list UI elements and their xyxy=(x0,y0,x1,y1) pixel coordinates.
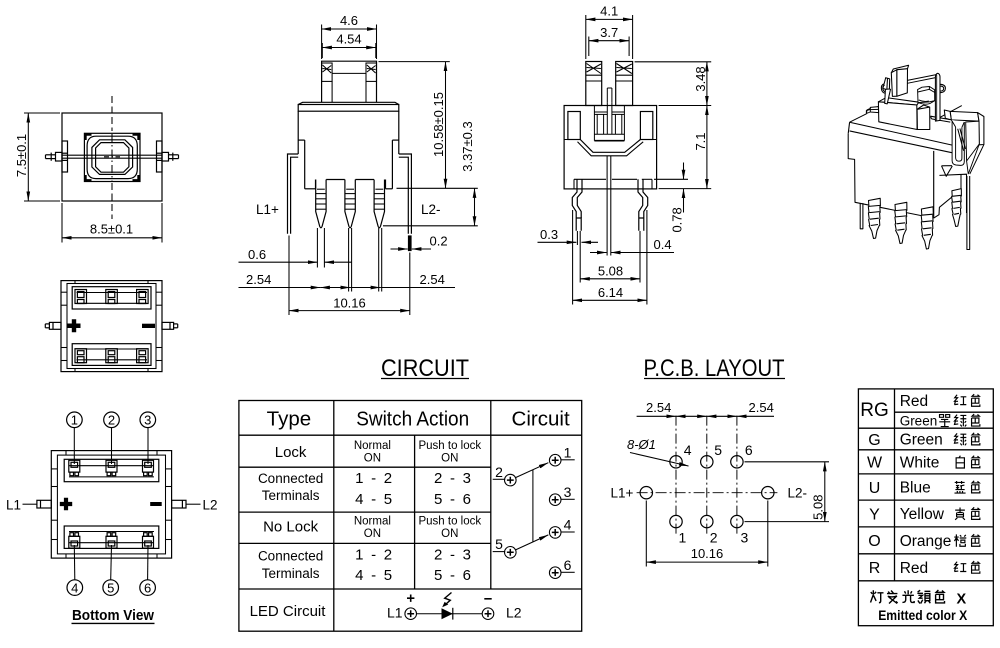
terminal pin 1 xyxy=(316,180,326,228)
hole 3 xyxy=(731,515,743,527)
3d post curl xyxy=(940,84,945,92)
terminal 2 pad xyxy=(106,460,117,475)
housing inner wall xyxy=(51,451,171,558)
3d body right face xyxy=(934,174,967,218)
dimension 6.14 xyxy=(573,299,647,301)
3d bracket front face xyxy=(966,121,984,174)
dimension 7.1 xyxy=(659,106,712,189)
svg-text:6: 6 xyxy=(745,442,753,458)
LED circuit: L1 terminal xyxy=(405,608,417,620)
L2 label xyxy=(186,503,201,505)
dimension 5.08 xyxy=(580,278,640,280)
svg-text:5: 5 xyxy=(107,580,114,595)
svg-text:1: 1 xyxy=(679,530,687,546)
pin 3 centre extension xyxy=(379,228,382,292)
CIRCUIT title xyxy=(381,355,469,382)
svg-text:2 - 3: 2 - 3 xyxy=(434,546,471,563)
svg-text:8.5±0.1: 8.5±0.1 xyxy=(90,222,133,237)
row: No Lock xyxy=(263,515,481,539)
svg-text:3: 3 xyxy=(564,484,572,500)
dimension 8.5±0.1 xyxy=(62,203,162,243)
hole L1 xyxy=(640,487,652,499)
svg-text:Terminals: Terminals xyxy=(262,566,320,581)
button ring outer xyxy=(87,136,137,178)
centerline vertical (dashed) xyxy=(104,96,120,219)
svg-text:4: 4 xyxy=(684,442,692,458)
3d bracket right face xyxy=(978,113,984,145)
svg-text:Red: Red xyxy=(900,560,928,577)
minus polarity mark xyxy=(142,324,155,328)
svg-text:0.4: 0.4 xyxy=(654,237,672,252)
table grid xyxy=(239,401,582,632)
housing outline xyxy=(51,451,171,558)
dimension 0.78 xyxy=(654,163,688,213)
svg-text:6.14: 6.14 xyxy=(598,285,623,300)
hole 4 xyxy=(670,456,682,468)
terminal 6 pad xyxy=(143,533,154,548)
3d left leg wire xyxy=(860,203,863,229)
svg-text:RG: RG xyxy=(860,400,889,421)
internal shelf lines xyxy=(564,139,657,141)
dimension 5.08 xyxy=(745,462,830,522)
svg-text:5.08: 5.08 xyxy=(598,264,623,279)
svg-text:1: 1 xyxy=(71,413,78,428)
dimension 0.2 xyxy=(391,248,432,250)
body flange xyxy=(298,105,399,112)
3d front pin C xyxy=(921,207,933,249)
schematic: terminal 6 xyxy=(549,567,574,579)
row: LED Circuit xyxy=(250,603,327,620)
svg-text:Connected: Connected xyxy=(258,548,323,563)
hole 1 xyxy=(670,515,682,527)
contact cup outer xyxy=(580,140,640,153)
leader terminal 5 to balloon 5 xyxy=(110,545,113,580)
terminal 3 pad xyxy=(143,460,154,475)
svg-text:Bottom View: Bottom View xyxy=(72,607,154,624)
L2- label xyxy=(421,202,441,217)
svg-text:Yellow: Yellow xyxy=(900,506,945,523)
svg-text:G: G xyxy=(868,432,880,449)
left retainer tab xyxy=(62,141,68,172)
housing outline xyxy=(61,281,162,372)
hole 2 xyxy=(701,515,713,527)
left corner block xyxy=(568,112,580,140)
svg-text:2.54: 2.54 xyxy=(246,272,271,287)
LED circuit: L1 label xyxy=(387,605,403,621)
svg-text:2: 2 xyxy=(495,464,503,480)
3d rear right leg wire xyxy=(967,176,970,250)
svg-text:L2-: L2- xyxy=(421,202,441,217)
LED circuit: diode D1 xyxy=(442,608,453,620)
svg-text:Circuit: Circuit xyxy=(512,407,570,430)
schematic: link bar xyxy=(532,470,534,542)
svg-text:4 - 5: 4 - 5 xyxy=(355,491,392,508)
3d platform top band xyxy=(878,98,919,105)
3d platform left foot xyxy=(867,107,879,114)
svg-text:5 - 6: 5 - 6 xyxy=(434,491,471,508)
svg-text:Normal: Normal xyxy=(354,515,391,527)
right lead pin xyxy=(162,322,178,329)
LED circuit: light arrow xyxy=(442,593,451,608)
svg-text:1 - 2: 1 - 2 xyxy=(355,546,392,563)
stem right clip xyxy=(366,63,377,81)
svg-text:L1: L1 xyxy=(6,497,21,512)
hole L2 xyxy=(762,487,774,499)
svg-text:X: X xyxy=(957,592,967,608)
L1 lead wire (left leg) xyxy=(288,154,299,234)
minus polarity mark xyxy=(150,502,162,506)
svg-text:4.54: 4.54 xyxy=(336,32,361,47)
svg-text:0.6: 0.6 xyxy=(248,247,266,262)
svg-text:3: 3 xyxy=(144,413,151,428)
svg-text:Type: Type xyxy=(267,407,311,430)
svg-text:L1: L1 xyxy=(387,605,403,621)
top terminal slot xyxy=(64,459,159,481)
terminal 4 pad xyxy=(69,533,80,548)
svg-text:L2-: L2- xyxy=(788,486,808,501)
dimension 4.1 xyxy=(586,15,633,59)
svg-text:4.6: 4.6 xyxy=(340,13,358,28)
svg-text:Green: Green xyxy=(900,432,943,449)
stem left post xyxy=(586,62,602,106)
terminal clip B3 xyxy=(137,349,149,363)
leader terminal 2 to balloon 2 xyxy=(111,428,113,464)
balloon 2 xyxy=(104,412,120,428)
svg-text:R: R xyxy=(869,560,881,577)
pin 1 tip extension lines xyxy=(317,228,324,268)
schematic: terminal 3 xyxy=(549,494,574,506)
svg-text:6: 6 xyxy=(144,580,151,595)
3d plate front face xyxy=(848,122,956,153)
leg tip extensions xyxy=(573,210,647,305)
L1+ label xyxy=(611,486,634,501)
leader terminal 1 to balloon 1 xyxy=(73,428,75,464)
svg-text:3.48: 3.48 xyxy=(693,66,708,91)
colour code letters xyxy=(860,400,889,577)
terminal 1 pad xyxy=(69,460,80,475)
switch leg right xyxy=(638,179,648,231)
svg-text:2.54: 2.54 xyxy=(420,272,445,287)
L2 lead tip (0.2 feature) xyxy=(408,235,412,251)
plus polarity mark xyxy=(68,319,81,332)
svg-text:Connected: Connected xyxy=(258,471,323,486)
svg-text:ON: ON xyxy=(364,528,381,540)
bottom terminal slot xyxy=(64,526,159,548)
svg-text:5.08: 5.08 xyxy=(811,495,826,520)
hole number labels xyxy=(679,442,753,546)
dimension 2.54 2.54 top xyxy=(637,415,774,417)
L1+ label xyxy=(256,202,279,217)
svg-text:Green: Green xyxy=(900,413,938,428)
dimension 7.5±0.1 xyxy=(24,113,60,201)
svg-text:7.5±0.1: 7.5±0.1 xyxy=(14,134,29,177)
svg-text:2: 2 xyxy=(108,413,115,428)
LED circuit: L2 label xyxy=(506,605,522,621)
svg-text:4.1: 4.1 xyxy=(600,4,618,19)
svg-text:O: O xyxy=(868,533,880,550)
body top bevel xyxy=(298,102,399,104)
L2- label xyxy=(788,486,808,501)
L1 label xyxy=(23,503,37,505)
balloon 1 xyxy=(67,412,83,428)
schematic: terminal 2 xyxy=(493,474,516,486)
3d front pin B xyxy=(895,202,907,243)
top terminal slot xyxy=(72,287,151,309)
bottom terminal slot xyxy=(72,344,151,366)
svg-text:Lock: Lock xyxy=(275,444,307,461)
top view body outline xyxy=(62,113,162,201)
3d plunger cap front face xyxy=(897,69,908,97)
terminal clip A2 xyxy=(106,290,118,304)
svg-text:5: 5 xyxy=(495,536,503,552)
terminal clip A1 xyxy=(75,290,87,304)
hole 5 xyxy=(701,456,713,468)
dimension 0.4 xyxy=(590,252,674,254)
right lead pin L2 xyxy=(172,500,186,508)
stem right post xyxy=(616,62,633,106)
schematic: terminal 1 xyxy=(549,454,574,466)
dimension 4.54 xyxy=(322,43,376,58)
svg-text:8-Ø1: 8-Ø1 xyxy=(627,437,656,452)
svg-text:2: 2 xyxy=(710,530,718,546)
LED centre lead xyxy=(607,156,611,256)
row: Connected Terminals (lock) xyxy=(258,470,471,508)
plunger stem xyxy=(322,61,377,102)
svg-text:3.7: 3.7 xyxy=(600,25,618,40)
plus polarity mark xyxy=(60,498,72,510)
dimension 10.16 xyxy=(646,501,768,567)
header labels xyxy=(267,407,570,430)
colour table grid xyxy=(858,389,993,626)
svg-text:1: 1 xyxy=(564,445,572,461)
3d plunger cap left face xyxy=(891,70,897,97)
svg-text:0.2: 0.2 xyxy=(430,234,448,249)
dimension 10.58±0.15 xyxy=(379,62,478,189)
svg-text:Orange: Orange xyxy=(900,533,952,550)
dimension 2.54 / 2.54 xyxy=(239,287,456,289)
3d right post xyxy=(935,73,940,121)
housing inner wall xyxy=(61,281,162,372)
svg-text:Y: Y xyxy=(869,506,880,523)
schematic: terminal 5 xyxy=(493,547,516,559)
svg-text:Red: Red xyxy=(900,393,928,410)
svg-text:3: 3 xyxy=(741,530,749,546)
3d plate slot xyxy=(931,116,951,122)
svg-text:L2: L2 xyxy=(203,497,218,512)
contact cup inner xyxy=(578,142,644,156)
row: Lock xyxy=(275,440,482,464)
LED cavity xyxy=(594,106,624,141)
LED circuit: plus sign xyxy=(407,595,414,602)
svg-text:L2: L2 xyxy=(506,605,522,621)
3d crossbar rail xyxy=(907,75,936,84)
3d left clip xyxy=(881,78,890,104)
colour names chinese xyxy=(939,394,980,573)
svg-text:No Lock: No Lock xyxy=(263,519,319,536)
dimension 0.3 xyxy=(538,241,599,243)
svg-text:Normal: Normal xyxy=(354,440,391,452)
stem tongue through cavity xyxy=(607,102,612,134)
body side notches xyxy=(298,140,399,189)
schematic: moving contact 2-1 xyxy=(515,463,548,478)
3d plunger cap top face xyxy=(891,65,908,72)
terminal pin 2 xyxy=(345,180,355,228)
footer emitted colour xyxy=(871,590,945,603)
svg-text:1 - 2: 1 - 2 xyxy=(355,470,392,487)
svg-text:W: W xyxy=(867,455,883,472)
row: Connected Terminals (no lock) xyxy=(258,546,471,584)
svg-text:0.3: 0.3 xyxy=(540,227,558,242)
left lead pin xyxy=(45,322,61,329)
terminal clip B1 xyxy=(75,349,87,363)
svg-text:2.54: 2.54 xyxy=(749,400,774,415)
button outer frame xyxy=(84,133,140,181)
body outline xyxy=(564,106,657,189)
terminal clip B2 xyxy=(106,349,118,363)
3d cradle block xyxy=(918,87,935,105)
svg-text:Terminals: Terminals xyxy=(262,488,320,503)
svg-text:10.16: 10.16 xyxy=(691,546,724,561)
svg-text:Push to lock: Push to lock xyxy=(418,440,481,452)
3d bracket strut xyxy=(958,129,966,151)
left lead pin L1 xyxy=(37,500,51,508)
switch leg left xyxy=(572,179,582,231)
dimension 4.6 xyxy=(322,25,377,60)
svg-text:4 - 5: 4 - 5 xyxy=(355,567,392,584)
svg-text:5: 5 xyxy=(714,442,722,458)
terminal 5 pad xyxy=(106,533,117,548)
svg-text:ON: ON xyxy=(364,452,381,464)
svg-text:L1+: L1+ xyxy=(256,202,279,217)
leader terminal 6 to balloon 6 xyxy=(147,545,149,580)
stem centre tongue xyxy=(607,88,612,102)
3d rear pin D xyxy=(952,189,962,227)
balloon 5 xyxy=(103,580,119,596)
svg-text:ON: ON xyxy=(441,528,458,540)
stem spring bar xyxy=(332,73,366,102)
right side pin (L2 lead) xyxy=(162,152,179,161)
balloon 3 xyxy=(140,412,156,428)
3d bracket top face xyxy=(944,110,979,121)
schematic: moving contact 5-4 xyxy=(515,535,548,550)
svg-text:10.58±0.15: 10.58±0.15 xyxy=(431,92,446,157)
body bottom edges xyxy=(305,180,393,189)
3d bracket lower tip xyxy=(942,166,953,177)
svg-text:U: U xyxy=(869,480,881,497)
pin 2 centre extension xyxy=(349,228,352,292)
button corner clips xyxy=(86,135,139,181)
dimension 3.37±0.3 xyxy=(383,188,478,226)
pin wire through button xyxy=(62,155,162,158)
svg-text:4: 4 xyxy=(71,580,78,595)
LED circuit: L2 terminal xyxy=(482,608,494,620)
svg-text:2 - 3: 2 - 3 xyxy=(434,470,471,487)
right retainer tab xyxy=(157,141,163,172)
base recess line xyxy=(574,179,652,189)
balloon 4 xyxy=(67,580,83,596)
svg-text:10.16: 10.16 xyxy=(333,295,366,310)
svg-text:2.54: 2.54 xyxy=(646,400,671,415)
svg-text:0.78: 0.78 xyxy=(670,207,685,232)
hole centrelines xyxy=(637,416,778,535)
svg-text:5 - 6: 5 - 6 xyxy=(434,567,471,584)
P.C.B. LAYOUT title xyxy=(644,355,785,382)
LED circuit: minus sign xyxy=(484,598,491,600)
button ring middle (octagon) xyxy=(92,140,133,175)
dimension 3.7 xyxy=(589,37,629,57)
dimension 0.6 xyxy=(239,261,353,263)
schematic: terminal 4 xyxy=(549,527,574,539)
dimension 10.16 xyxy=(289,310,410,312)
leg extension lines xyxy=(289,236,410,316)
LED circuit: wire xyxy=(417,613,483,615)
svg-text:LED Circuit: LED Circuit xyxy=(250,603,327,620)
stem left clip xyxy=(322,63,333,81)
svg-text:4: 4 xyxy=(564,517,572,533)
3d body front face xyxy=(848,134,934,218)
svg-text:L1+: L1+ xyxy=(611,486,634,501)
dimension 3.48 xyxy=(635,62,712,106)
3d plate top face xyxy=(850,105,962,147)
3d bracket U channel xyxy=(951,120,964,166)
Bottom View caption xyxy=(72,607,154,624)
svg-text:Blue: Blue xyxy=(900,480,931,497)
balloon 6 xyxy=(140,580,156,596)
svg-text:Emitted color X: Emitted color X xyxy=(878,608,967,623)
colour names english xyxy=(900,393,952,577)
svg-text:Push to lock: Push to lock xyxy=(418,515,481,527)
leader terminal 4 to balloon 4 xyxy=(73,545,76,580)
leader terminal 3 to balloon 3 xyxy=(147,428,149,464)
svg-text:White: White xyxy=(900,455,940,472)
svg-text:ON: ON xyxy=(441,452,458,464)
terminal clip A3 xyxy=(137,290,149,304)
3d front pin A xyxy=(868,198,880,238)
hole 6 xyxy=(731,456,743,468)
button plunger (inner rounded square) xyxy=(96,143,129,173)
right corner block xyxy=(640,112,652,140)
svg-text:Switch Action: Switch Action xyxy=(356,407,469,430)
terminal pin 3 xyxy=(374,180,384,228)
3d platform front face xyxy=(878,102,917,130)
svg-text:7.1: 7.1 xyxy=(693,132,708,150)
body upper walls xyxy=(298,111,399,154)
svg-text:6: 6 xyxy=(564,557,572,573)
left side pin (L1 lead) xyxy=(46,152,63,161)
3d platform side wedge xyxy=(917,105,930,130)
8-Ø1 callout xyxy=(627,437,656,452)
svg-text:3.37±0.3: 3.37±0.3 xyxy=(460,121,475,172)
L2 lead wire (right leg) xyxy=(399,154,412,234)
